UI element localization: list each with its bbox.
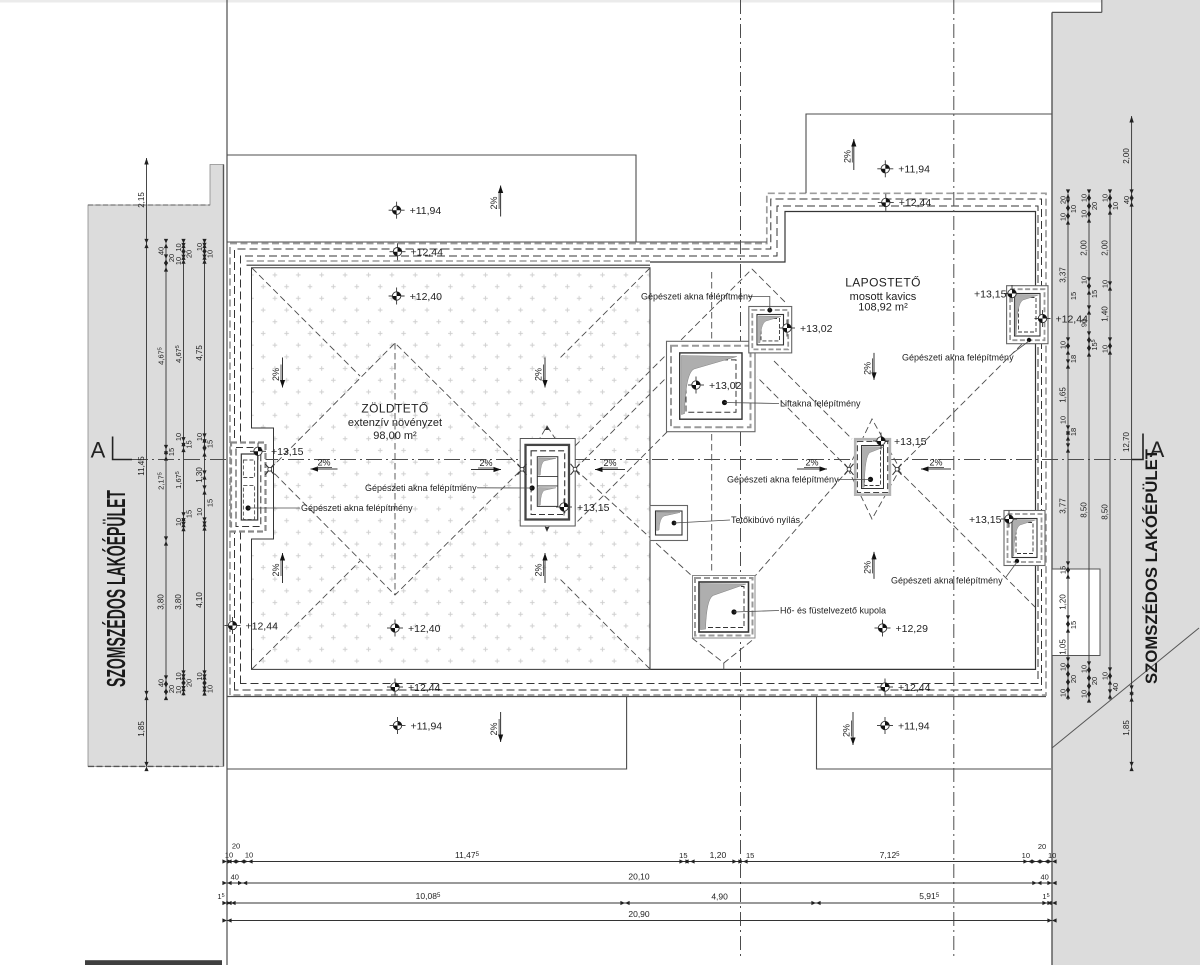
svg-text:10: 10 [1080,194,1089,202]
site axis line B [953,0,955,959]
svg-text:20: 20 [185,250,194,258]
svg-text:+12,44: +12,44 [898,682,931,694]
label top shaft leader [748,297,770,311]
svg-text:2%: 2% [603,458,616,468]
svg-text:3,77: 3,77 [1059,498,1068,514]
building outline upper right terrace [806,114,1052,193]
svg-text:3,37: 3,37 [1059,267,1068,283]
svg-text:4,75: 4,75 [195,345,204,361]
green roof inner boundary top line [247,264,651,266]
roof parapet outer overhang dashed line [230,193,1046,695]
page top edge shading [0,0,1200,3]
svg-text:3,80: 3,80 [174,594,183,610]
svg-text:90: 90 [1080,319,1089,327]
svg-text:+12,44: +12,44 [246,620,279,632]
spot elevation +13,15 central shaft [556,499,572,516]
spot elevation +12,44 top left [390,243,406,260]
bottom terrace right [817,697,1052,769]
spot elevation +12,44 bottom left [387,679,403,696]
right neighbour diagonal wall line [1052,628,1199,748]
spot elevation +11,94 top right [877,160,893,177]
svg-text:20: 20 [1090,677,1099,685]
svg-text:108,92 m²: 108,92 m² [858,302,908,314]
left neighbour building lower edge bar [85,960,222,965]
spot elevation +11,94 top left [389,202,405,219]
label lift shaft leader [725,403,780,404]
svg-text:10: 10 [206,685,215,693]
slope arrow 2% flat N [873,353,875,380]
svg-text:15: 15 [1059,566,1068,574]
svg-text:2%: 2% [489,722,499,735]
svg-text:+12,44: +12,44 [408,682,441,694]
svg-text:8,50: 8,50 [1080,502,1089,518]
roof parapet wall line 1 [235,199,1042,690]
svg-text:18: 18 [1069,355,1078,363]
valley drain to lift shaft left [575,377,667,469]
svg-text:18: 18 [1069,428,1078,436]
left mechanical shaft (Gépészeti akna felépítmény) [231,443,266,532]
green roof inner gray dashed top line [247,260,651,262]
svg-text:2,00: 2,00 [1080,240,1089,256]
svg-text:3,80: 3,80 [157,594,166,610]
svg-text:1,85: 1,85 [137,721,146,737]
slope arrow 2% bottom right [852,712,854,745]
svg-text:10: 10 [245,851,253,860]
section marker A left [113,437,132,460]
svg-text:10: 10 [1022,851,1030,860]
lift shaft structure (Liftakna felépítmény) [667,341,756,431]
svg-text:2%: 2% [929,458,942,468]
dimension chain R4 [1131,116,1133,769]
svg-text:2%: 2% [534,368,544,381]
svg-text:10: 10 [174,518,183,526]
svg-text:2,00: 2,00 [1101,240,1110,256]
svg-text:8,50: 8,50 [1101,504,1110,520]
svg-text:10: 10 [195,433,204,441]
green roof hatched area ZÖLDTETŐ [252,268,651,670]
slope arrow 2% green NW [282,358,284,388]
spot elevation +12,29 bottom right [875,620,891,637]
property line left [226,0,228,965]
mini diamond right shaft [848,419,900,519]
svg-text:10: 10 [174,686,183,694]
spot elevation +12,40 bottom left [387,620,403,637]
svg-text:10: 10 [174,257,183,265]
svg-text:40: 40 [1122,196,1131,204]
svg-text:40: 40 [157,679,166,687]
svg-text:Gépészeti akna felépítmény: Gépészeti akna felépítmény [891,576,1003,586]
svg-text:Gépészeti akna felépítmény: Gépészeti akna felépítmény [641,292,753,302]
svg-text:2%: 2% [534,563,544,576]
label right shaft leader [838,478,871,480]
svg-text:+13,15: +13,15 [577,502,610,514]
spot elevation +12,40 top left [389,288,405,305]
slope arrow 2% bottom left [500,712,502,742]
top-right mechanical shaft [1007,286,1048,344]
slope arrow 2% right shaft east [921,468,951,470]
svg-text:+12,40: +12,40 [408,623,441,635]
dimension chain B3 [227,902,1052,904]
valley drain to dome left [575,469,692,576]
dimension chain R1 [1067,194,1069,700]
svg-text:15: 15 [679,851,687,860]
svg-text:10: 10 [195,508,204,516]
slope arrow 2% left shaft [311,468,338,470]
svg-text:2%: 2% [489,196,499,209]
svg-text:10: 10 [1080,665,1089,673]
bottom terrace left [227,697,627,769]
slope arrow 2% right shaft west [797,468,827,470]
svg-text:10: 10 [174,433,183,441]
svg-text:LAPOSTETŐ: LAPOSTETŐ [845,275,921,290]
flat roof inner boundary LAPOSTETŐ [650,212,1036,670]
left neighbour building SZOMSZÉDOS LAKÓÉPÜLET [88,165,224,767]
svg-text:10: 10 [174,672,183,680]
spot elevation +11,94 bottom left [390,717,406,734]
slope arrow 2% central west [471,469,501,471]
svg-text:10: 10 [1059,341,1068,349]
spot elevation +12,44 west [225,617,241,634]
svg-text:+12,44: +12,44 [899,197,932,209]
svg-text:4,10: 4,10 [195,592,204,608]
right neighbour white stair recess [1052,569,1100,656]
svg-text:2%: 2% [863,362,873,375]
svg-text:10: 10 [1059,663,1068,671]
slope arrow 2% green NE [544,358,546,388]
mini diamond left shaft [254,453,270,469]
svg-text:SZOMSZÉDOS LAKÓÉPÜLET: SZOMSZÉDOS LAKÓÉPÜLET [101,490,131,687]
label dome leader [734,611,779,613]
svg-text:15: 15 [746,851,754,860]
spot elevation +12,44 bottom right [877,679,893,696]
svg-text:Gépészeti akna felépítmény: Gépészeti akna felépítmény [301,503,413,513]
label bottom-right shaft leader [1006,562,1017,577]
spot elevation +13,02 lift shaft [688,377,704,394]
slope arrow 2% central east [595,469,625,471]
svg-text:10: 10 [1101,672,1110,680]
svg-text:1,20: 1,20 [1059,594,1068,610]
svg-text:+12,44: +12,44 [411,247,444,259]
svg-text:+13,15: +13,15 [969,514,1002,526]
spot elevation +13,02 top shaft [779,320,795,337]
drain X central shaft east [571,464,580,475]
spot elevation +12,44 east [1035,310,1051,327]
right mechanical shaft on section line [854,438,891,496]
svg-text:15: 15 [1069,292,1078,300]
svg-text:1,20: 1,20 [710,850,727,860]
spot elevation +13,15 bottom-right shaft [1001,511,1017,528]
svg-text:1,05: 1,05 [1059,639,1068,655]
svg-text:+11,94: +11,94 [410,205,442,217]
valley drain to dome right [755,469,849,576]
svg-text:10: 10 [1059,689,1068,697]
valley lift shaft corner [577,432,667,522]
corner valley bottom-right of green [560,579,650,669]
central mechanical shaft [520,425,575,532]
spot elevation +11,94 bottom right [877,717,893,734]
svg-text:A: A [91,438,106,463]
slope arrow 2% top left [500,186,502,217]
right neighbour building SZOMSZÉDOS LAKÓÉPÜLET [1052,0,1200,965]
dimension chain L1 [146,158,148,767]
svg-text:10: 10 [1101,345,1110,353]
svg-text:2%: 2% [317,458,330,468]
svg-text:10: 10 [1101,194,1110,202]
svg-text:+12,29: +12,29 [896,623,929,635]
svg-text:10: 10 [1048,851,1056,860]
svg-text:10: 10 [1080,690,1089,698]
label roof hatch leader [674,520,730,523]
drain X left shaft [265,464,274,475]
spot elevation +12,44 top right [878,194,894,211]
svg-text:4,90: 4,90 [711,892,728,902]
svg-text:Hő- és füstelvezető kupola: Hő- és füstelvezető kupola [780,606,886,616]
roof hatch opening (Tetőkibúvó nyílás) [650,506,688,541]
spot elevation +13,15 right shaft [873,433,889,450]
svg-text:+11,94: +11,94 [411,720,443,732]
svg-text:Gépészeti akna felépítmény: Gépészeti akna felépítmény [727,474,839,484]
label left shaft leader [248,507,300,509]
svg-text:2%: 2% [863,561,873,574]
svg-text:2,15: 2,15 [137,192,146,208]
roof parapet wall line 2 [241,206,1039,684]
dimension chain R2 [1088,194,1090,700]
svg-text:20: 20 [1059,196,1068,204]
svg-text:15: 15 [185,440,194,448]
ridge diamond green roof [270,343,522,595]
drain X right shaft west [845,464,854,475]
mini diamond central shaft [522,426,575,531]
svg-text:15: 15 [206,499,215,507]
corner valley top-left [252,268,360,376]
svg-text:1,85: 1,85 [1122,720,1131,736]
svg-text:20: 20 [232,842,240,851]
svg-text:Gépészeti akna felépítmény: Gépészeti akna felépítmény [365,483,477,493]
top mechanical shaft [749,307,792,353]
svg-text:15: 15 [1090,290,1099,298]
valley right shaft to parapet top [897,331,1035,469]
svg-text:20: 20 [1090,202,1099,210]
dimension chain L3 [183,244,185,696]
dimension chain L2 [165,244,167,696]
svg-text:15: 15 [1069,621,1078,629]
label central shaft leader [477,487,532,489]
svg-text:20,90: 20,90 [628,909,650,919]
svg-text:12,70: 12,70 [1122,431,1131,452]
svg-text:10: 10 [1059,416,1068,424]
svg-text:10: 10 [225,851,233,860]
building outline bottom terrace [227,696,1046,698]
slope arrow 2% green SW [282,553,284,583]
svg-text:10: 10 [1080,210,1089,218]
svg-text:20: 20 [185,679,194,687]
section line A-A [132,459,1143,461]
dimension chain B2 [227,882,1052,884]
svg-text:40: 40 [231,873,239,882]
ridge apex right branch [752,269,787,304]
svg-text:+13,02: +13,02 [800,323,833,335]
spot elevation +13,15 top-right shaft [1004,285,1020,302]
svg-text:10: 10 [1059,213,1068,221]
svg-text:40: 40 [157,247,166,255]
svg-text:11,45: 11,45 [137,456,146,476]
svg-text:10: 10 [1080,276,1089,284]
valley right shaft to parapet bottom [897,469,1035,607]
dimension chain B4 [227,920,1052,922]
svg-text:1,40: 1,40 [1101,306,1110,322]
svg-text:2%: 2% [271,368,281,381]
svg-text:40: 40 [1111,683,1120,691]
svg-text:Gépészeti akna felépítmény: Gépészeti akna felépítmény [902,353,1014,363]
roof access dome (Hő- és füstelvezető kupola) [693,576,756,639]
spot elevation +13,15 left shaft [250,443,266,460]
corner valley top-right of green [560,268,650,358]
svg-text:10: 10 [1069,205,1078,213]
svg-text:20: 20 [1069,675,1078,683]
svg-text:+13,02: +13,02 [709,380,742,392]
svg-text:2%: 2% [805,458,818,468]
svg-text:+11,94: +11,94 [898,164,930,176]
svg-text:+13,15: +13,15 [271,446,304,458]
svg-text:15: 15 [185,510,194,518]
svg-text:10: 10 [174,243,183,251]
svg-text:15: 15 [206,440,215,448]
valley drain to lift shaft right [757,377,849,469]
svg-text:2%: 2% [842,150,852,163]
svg-text:10: 10 [206,250,215,258]
drain X right shaft east [893,464,902,475]
svg-text:ZÖLDTETŐ: ZÖLDTETŐ [361,401,428,416]
svg-text:15: 15 [167,448,176,456]
svg-text:10: 10 [195,672,204,680]
site axis line A [740,0,742,959]
corner valley bottom-left [252,561,360,669]
slope arrow 2% flat S [873,552,875,579]
svg-text:2%: 2% [479,458,492,468]
svg-text:1,65: 1,65 [1059,387,1068,403]
valley between shafts [774,361,852,439]
valley below dome [692,638,755,663]
svg-text:extenzív növényzet: extenzív növényzet [348,417,442,429]
svg-text:Liftakna felépítmény: Liftakna felépítmény [780,399,861,409]
svg-text:20: 20 [1038,842,1046,851]
svg-text:1,30: 1,30 [195,467,204,483]
dimension chain B1 [227,861,1052,863]
svg-text:2,00: 2,00 [1122,148,1131,164]
svg-text:+13,15: +13,15 [974,289,1007,301]
label top-right shaft leader [1013,341,1029,353]
svg-text:20,10: 20,10 [628,872,650,882]
svg-text:+11,94: +11,94 [898,720,930,732]
svg-text:98,00 m²: 98,00 m² [373,430,417,442]
svg-text:+13,15: +13,15 [894,436,927,448]
section marker A right [1132,434,1143,460]
ridge centre line green roof [394,343,396,595]
drain X central shaft west [518,464,527,475]
svg-text:2%: 2% [271,563,281,576]
svg-text:SZOMSZÉDOS LAKÓÉPÜLET: SZOMSZÉDOS LAKÓÉPÜLET [1142,448,1161,684]
valley to ridge apex flat roof [575,269,752,446]
svg-text:+12,40: +12,40 [410,291,443,303]
svg-text:Tetőkibúvó nyílás: Tetőkibúvó nyílás [731,515,801,525]
svg-text:10: 10 [1101,280,1110,288]
slope arrow 2% top right [853,139,855,170]
ridge centre line flat roof [711,434,713,573]
svg-text:40: 40 [1041,873,1049,882]
bottom-right mechanical shaft [1004,511,1045,566]
svg-text:2%: 2% [842,724,852,737]
svg-text:10: 10 [1111,202,1120,210]
dimension chain R3 [1109,194,1111,700]
dimension chain L4 [204,244,206,696]
slope arrow 2% green SE [544,553,546,583]
svg-text:10: 10 [195,243,204,251]
building outline upper left terrace [227,155,636,242]
